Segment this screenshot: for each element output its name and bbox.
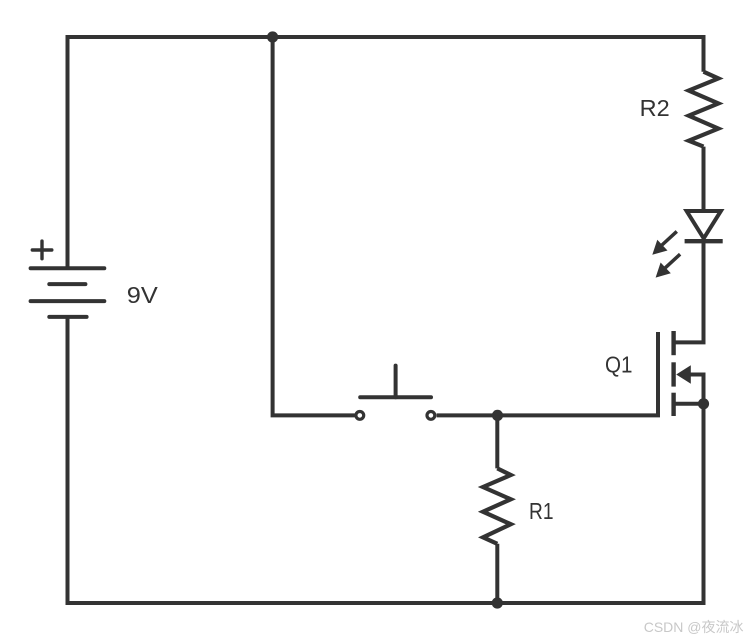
Q1 body arrow head [676,365,691,383]
wire junction down to R1 top [495,415,499,468]
node gate/R1 junction dot [492,410,503,421]
wire top rail from battery + up and across to R2 [68,37,704,268]
battery plate short [49,282,85,286]
node source junction dot [698,398,709,409]
switch actuator bar [360,395,431,399]
svg-text:R2: R2 [640,95,670,121]
wire switch right contact to MOSFET gate [437,332,658,415]
resistor R2 [689,72,719,147]
LED triangle anode [687,211,721,238]
resistor R1 [483,468,511,543]
LED cathode bar [685,239,723,243]
battery plate long top [31,266,105,270]
battery plate long [31,299,105,303]
LED light arrow 2 [656,254,681,277]
node R1/bottom rail junction dot [492,597,503,608]
battery BT1 9V [31,241,105,317]
battery plate short bottom [49,315,86,319]
LED light arrow 1 [652,231,677,254]
Q1 body arrow shaft and connection to source [684,375,704,404]
wire branch from top junction down to switch left contact [273,37,355,415]
Q1 channel dash top (drain) [671,331,675,355]
Q1 channel dash middle (body) [671,362,675,386]
svg-text:Q1: Q1 [605,352,633,378]
svg-text:CSDN @夜流冰: CSDN @夜流冰 [644,619,744,635]
transistor Q1 N-MOSFET [658,331,704,605]
Q1 gate plate [656,332,660,415]
battery plus sign [32,241,52,259]
svg-text:9V: 9V [127,282,158,308]
wire R1 bottom to bottom rail [495,544,499,603]
wire battery - to bottom rail and across to MOSFET source [68,317,704,603]
pushbutton switch S1 [356,366,435,420]
svg-text:R1: R1 [529,498,554,524]
switch contact left [356,412,364,420]
node top junction dot [267,31,278,42]
switch actuator stem [394,366,398,398]
LED D1 [652,211,722,278]
switch contact right [427,412,435,420]
wire R2 bottom to LED anode [702,147,706,211]
Q1 source lead [674,404,704,605]
Q1 channel dash bottom (source) [671,393,675,416]
wire LED cathode down to MOSFET drain [674,241,704,342]
